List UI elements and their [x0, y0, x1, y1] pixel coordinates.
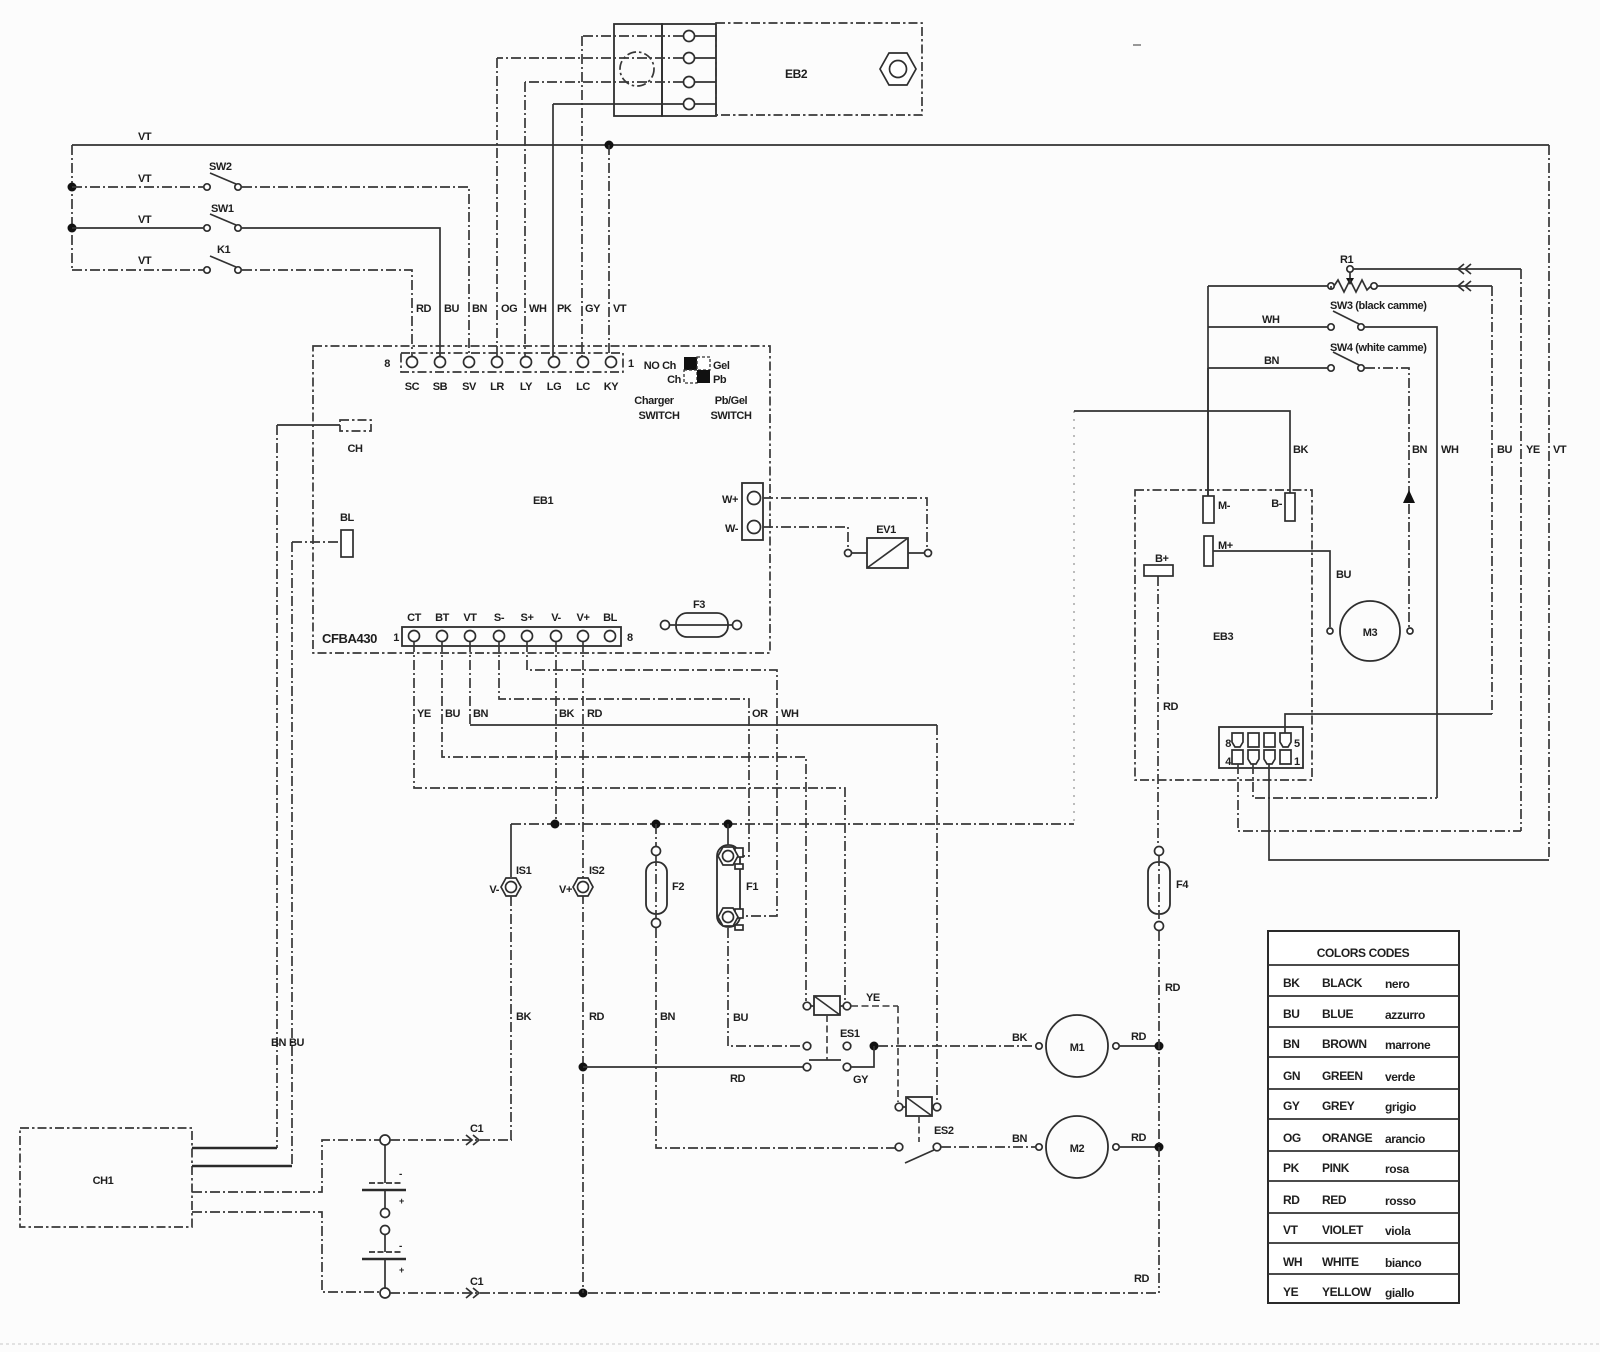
node junction left rail SW1 [68, 224, 77, 233]
svg-text:R1: R1 [1340, 254, 1354, 266]
svg-text:CFBA430: CFBA430 [322, 631, 377, 646]
svg-text:YELLOW: YELLOW [1322, 1285, 1372, 1299]
svg-text:GY: GY [585, 303, 601, 315]
wire C1 top to IS1 leg [390, 1123, 512, 1145]
wire BU F1 bottom to ES1 contact [728, 928, 803, 1046]
svg-text:BK: BK [1293, 444, 1309, 456]
wire SW2 to SV pin BN [242, 187, 469, 356]
wire BN left rail CH to CH1 [271, 425, 287, 1148]
wire battery mid link2 [384, 1234, 386, 1252]
wire battery mid link [384, 1190, 386, 1209]
pin LC [576, 357, 590, 394]
svg-text:F1: F1 [746, 881, 758, 893]
battery mid circle B [381, 1226, 390, 1235]
svg-text:LR: LR [490, 381, 504, 393]
wire EB2 pin4 to LG pin PK [553, 104, 683, 356]
wire RD M1 to RD rail [1120, 1031, 1155, 1046]
svg-text:VT: VT [1283, 1223, 1299, 1237]
connector EB2 keying circle [620, 52, 654, 86]
svg-text:marrone: marrone [1385, 1038, 1431, 1052]
svg-text:+: + [399, 1265, 404, 1275]
svg-text:VT: VT [613, 303, 627, 315]
svg-text:BN: BN [473, 708, 489, 720]
svg-text:GY: GY [853, 1074, 869, 1086]
svg-text:OG: OG [1283, 1131, 1301, 1145]
wire RD V+ long vertical [583, 642, 603, 1293]
svg-text:M2: M2 [1070, 1143, 1085, 1155]
svg-text:VT: VT [463, 612, 477, 624]
wire pin4 to YE rail [1238, 764, 1521, 831]
relay ES2 link [918, 1116, 920, 1142]
svg-text:8: 8 [1225, 738, 1231, 750]
svg-text:RD: RD [1165, 982, 1181, 994]
pin V+ [577, 612, 590, 642]
svg-text:RD: RD [587, 708, 603, 720]
svg-text:BROWN: BROWN [1322, 1037, 1367, 1051]
svg-text:F2: F2 [672, 881, 684, 893]
svg-text:BN: BN [1412, 444, 1428, 456]
pin LR [490, 357, 504, 394]
svg-text:S-: S- [494, 612, 505, 624]
svg-text:ORANGE: ORANGE [1322, 1131, 1373, 1145]
svg-text:SW3 (black camme): SW3 (black camme) [1330, 300, 1427, 312]
svg-text:BN: BN [1283, 1037, 1300, 1051]
svg-text:WHITE: WHITE [1322, 1255, 1359, 1269]
fuse F2 [646, 824, 684, 928]
svg-text:VT: VT [138, 255, 152, 267]
svg-text:V+: V+ [577, 612, 590, 624]
wire BK junction to M1 [878, 1032, 1035, 1046]
svg-text:VT: VT [1553, 444, 1567, 456]
svg-text:WH: WH [1283, 1255, 1302, 1269]
svg-text:C1: C1 [470, 1276, 484, 1288]
terminal M+ [1204, 536, 1233, 566]
wire pin5 to BU rail [1285, 714, 1492, 733]
node junction bus F1 [724, 820, 733, 829]
svg-text:EB3: EB3 [1213, 631, 1233, 643]
svg-text:BK: BK [559, 708, 575, 720]
connector EB1 bottom pin strip [393, 627, 633, 646]
wire K1 to SC pin RD [242, 270, 412, 356]
wire EB2 pin2 to LR pin OG [497, 58, 683, 356]
svg-text:RD: RD [1283, 1193, 1300, 1207]
wire pin2 to VT rail [1269, 764, 1549, 860]
node junction bus BK [551, 820, 560, 829]
relay ES2 contacts [895, 1143, 941, 1163]
wire CH1 out1 [192, 1147, 277, 1150]
block EB1 [313, 346, 770, 653]
node junction left rail SW2 [68, 183, 77, 192]
node junction ES1 out [870, 1042, 879, 1051]
node junction RD ES1 [579, 1063, 588, 1072]
connector EB3 8pin [1219, 727, 1303, 768]
wire EB2 pin3 to LY pin WH [525, 82, 683, 356]
wire WH SW3 to pin3 [1365, 327, 1459, 798]
node junction VT KY [605, 141, 614, 150]
node junction bus F2 [652, 820, 661, 829]
svg-text:Gel: Gel [713, 360, 730, 372]
wire rail M- SW switches [1207, 286, 1209, 496]
svg-text:BU: BU [445, 708, 461, 720]
svg-text:IS1: IS1 [516, 865, 532, 877]
battery terminal top circle [380, 1135, 390, 1145]
pin SC [405, 357, 420, 394]
label Pb/Gel SWITCH [711, 395, 752, 422]
svg-text:nero: nero [1385, 977, 1409, 991]
svg-text:Charger: Charger [634, 395, 674, 407]
wire CH1 out3 to battery plus [192, 1140, 380, 1192]
pin VT [463, 612, 477, 642]
motor M1 [1036, 1015, 1119, 1077]
relay contact K1 [204, 244, 241, 273]
wire R1 left to SW3 [1208, 286, 1331, 289]
svg-text:K1: K1 [217, 244, 231, 256]
wire BU rail vertical [1492, 286, 1513, 714]
svg-text:PINK: PINK [1322, 1161, 1350, 1175]
svg-text:S+: S+ [521, 612, 534, 624]
bolt on EB2 [880, 53, 916, 85]
battery mid circle A [381, 1209, 390, 1218]
svg-text:BU: BU [733, 1012, 749, 1024]
terminal B+ [1144, 553, 1173, 576]
svg-text:GY: GY [1283, 1099, 1300, 1113]
connector W+ W- [722, 483, 763, 540]
svg-text:CH: CH [347, 443, 363, 455]
svg-text:C1: C1 [470, 1123, 484, 1135]
wire OR S- to F1 top [499, 642, 768, 856]
switch SW4 white camme [1328, 342, 1427, 371]
svg-text:SW2: SW2 [209, 161, 232, 173]
node junction RD M2 [1155, 1143, 1164, 1152]
pin BL8 [603, 612, 618, 642]
svg-text:+: + [399, 1196, 404, 1206]
svg-text:VT: VT [138, 173, 152, 185]
svg-text:EV1: EV1 [876, 524, 896, 536]
svg-text:ES1: ES1 [840, 1028, 860, 1040]
switch charger Ch Pb [667, 370, 727, 386]
pin LG [547, 357, 561, 394]
svg-text:B-: B- [1271, 498, 1283, 510]
wire WH S+ to F1 bottom [527, 642, 799, 916]
svg-text:YE: YE [1526, 444, 1540, 456]
motor M3 [1327, 601, 1413, 661]
bolt IS1 [489, 865, 531, 896]
svg-text:SWITCH: SWITCH [711, 410, 752, 422]
svg-text:NO Ch: NO Ch [644, 360, 677, 372]
svg-text:M1: M1 [1070, 1042, 1085, 1054]
svg-text:ES2: ES2 [934, 1125, 954, 1137]
svg-text:B+: B+ [1155, 553, 1169, 565]
fuse F1 [717, 845, 758, 930]
svg-text:8: 8 [384, 358, 390, 370]
pin EB2-2 [684, 53, 695, 64]
svg-text:rosso: rosso [1385, 1194, 1416, 1208]
wire C1 bottom line [390, 1273, 1159, 1298]
wire SW1 to SB pin BU [242, 228, 440, 356]
battery cell 1 [362, 1169, 406, 1206]
svg-text:YE: YE [866, 992, 880, 1004]
switch SW3 black camme [1328, 300, 1427, 330]
svg-text:verde: verde [1385, 1070, 1416, 1084]
wire IS1 to C1 top BK [511, 896, 532, 1140]
wire pin3 to WH rail [1253, 764, 1437, 798]
battery cell 2 [362, 1241, 406, 1275]
motor M2 [1036, 1116, 1119, 1178]
block EB3 [1135, 490, 1312, 780]
node junction V+ bottom [579, 1289, 588, 1298]
svg-text:BK: BK [1012, 1032, 1028, 1044]
label Charger SWITCH [634, 395, 680, 422]
svg-text:BL: BL [340, 512, 355, 524]
svg-text:grigio: grigio [1385, 1100, 1416, 1114]
svg-text:BLACK: BLACK [1322, 976, 1363, 990]
svg-text:BN: BN [271, 1037, 287, 1049]
wire W+ to EV1 [763, 498, 927, 549]
svg-text:BU: BU [444, 303, 460, 315]
svg-text:BT: BT [435, 612, 450, 624]
svg-text:rosa: rosa [1385, 1162, 1409, 1176]
svg-text:RD: RD [1134, 1273, 1150, 1285]
connector EB2 plug body [614, 24, 716, 116]
svg-text:LC: LC [576, 381, 590, 393]
svg-text:VT: VT [138, 131, 152, 143]
block EB2 [716, 23, 922, 115]
svg-text:BL: BL [603, 612, 618, 624]
wire VT to SW1 [72, 214, 203, 228]
svg-text:BK: BK [516, 1011, 532, 1023]
terminal B- [1271, 493, 1295, 521]
svg-text:BU: BU [289, 1037, 305, 1049]
svg-text:IS2: IS2 [589, 865, 605, 877]
svg-text:LG: LG [547, 381, 561, 393]
svg-text:BK: BK [1283, 976, 1300, 990]
switch SW1 [204, 203, 241, 231]
scan artifact bottom line [0, 1343, 1600, 1345]
svg-text:BU: BU [1283, 1007, 1300, 1021]
svg-text:SW1: SW1 [211, 203, 234, 215]
wire W- to EV1 [763, 527, 848, 549]
pin CT [407, 612, 422, 642]
svg-text:SW4 (white camme): SW4 (white camme) [1330, 342, 1427, 354]
pin EB2-4 [684, 99, 695, 110]
svg-text:WH: WH [1262, 314, 1280, 326]
wire GY ES1 lower to junction [851, 1046, 874, 1067]
svg-text:arancio: arancio [1385, 1132, 1425, 1146]
svg-text:RED: RED [1322, 1193, 1347, 1207]
svg-text:viola: viola [1385, 1224, 1411, 1238]
svg-text:-: - [399, 1241, 402, 1252]
wire CH1 out2 [192, 1165, 292, 1168]
switch charger NO Ch Gel [644, 357, 730, 372]
wire EB2 pin stubs right [695, 36, 716, 104]
wire YE CT to ES1 coil right [414, 642, 845, 1001]
pin SB [433, 357, 448, 394]
wire RD B+ to F4 [1158, 576, 1179, 846]
svg-text:RD: RD [1163, 701, 1179, 713]
wire BU M+ to M3 [1213, 551, 1352, 627]
svg-text:KY: KY [604, 381, 620, 393]
svg-text:RD: RD [589, 1011, 605, 1023]
svg-text:azzurro: azzurro [1385, 1008, 1425, 1022]
svg-text:SV: SV [462, 381, 477, 393]
svg-text:OR: OR [752, 708, 768, 720]
wire CH lead [277, 424, 340, 426]
pin LY [520, 357, 533, 394]
relay ES1 contacts [803, 1042, 869, 1086]
svg-text:V-: V- [551, 612, 561, 624]
wire RD M2 to RD rail [1120, 1132, 1155, 1147]
svg-text:5: 5 [1294, 738, 1300, 750]
wire left rail [71, 145, 73, 270]
wire BN VT to ES2 coil right [470, 642, 937, 1102]
svg-text:F4: F4 [1176, 879, 1189, 891]
terminal M- [1203, 496, 1231, 523]
wire CH1 out4 to battery minus [192, 1212, 381, 1292]
svg-text:BN: BN [1012, 1133, 1028, 1145]
svg-text:1: 1 [393, 632, 399, 644]
svg-text:F3: F3 [693, 599, 705, 611]
svg-text:LY: LY [520, 381, 533, 393]
svg-text:-: - [399, 1169, 402, 1180]
svg-text:Pb: Pb [713, 374, 727, 386]
svg-text:GREEN: GREEN [1322, 1069, 1363, 1083]
table colors codes [1268, 931, 1459, 1303]
svg-text:WH: WH [781, 708, 799, 720]
wire R1 top to YE rail [1353, 264, 1521, 274]
wire bus horizontal [511, 823, 1074, 825]
pin BT [435, 612, 450, 642]
fuse F3 [661, 599, 742, 637]
wire BK V- to bus [556, 642, 575, 824]
valve EV1 [845, 524, 932, 568]
wire BN ES2 to M2 [941, 1133, 1035, 1147]
svg-text:OG: OG [501, 303, 517, 315]
svg-text:EB1: EB1 [533, 495, 553, 507]
wire WH to SW3 [1208, 314, 1328, 327]
relay ES2 coil [895, 1097, 954, 1137]
svg-text:V-: V- [489, 884, 499, 896]
svg-text:W-: W- [725, 523, 739, 535]
wire VT to K1 [72, 255, 203, 270]
node junction RD M1 [1155, 1042, 1164, 1051]
svg-text:WH: WH [1441, 444, 1459, 456]
wire bus left leg to IS1 [510, 824, 512, 877]
pin S+ [521, 612, 534, 642]
potentiometer R1 [1328, 254, 1377, 292]
svg-text:BN: BN [660, 1011, 676, 1023]
svg-text:1: 1 [628, 358, 634, 370]
svg-text:CH1: CH1 [93, 1175, 114, 1187]
svg-text:GREY: GREY [1322, 1099, 1355, 1113]
svg-text:RD: RD [730, 1073, 746, 1085]
wire battery top link [384, 1145, 386, 1183]
svg-text:BLUE: BLUE [1322, 1007, 1353, 1021]
svg-text:giallo: giallo [1385, 1286, 1414, 1300]
wire faint bus to BK corner [1073, 411, 1075, 824]
svg-text:PK: PK [557, 303, 572, 315]
svg-text:BU: BU [1336, 569, 1352, 581]
wire BK to B- [1074, 411, 1290, 493]
svg-text:M-: M- [1218, 500, 1231, 512]
connector EB1 top pin strip [384, 353, 634, 372]
pin EB2-3 [684, 77, 695, 88]
svg-text:VT: VT [138, 214, 152, 226]
wire M- from SW4 rail [1207, 368, 1209, 496]
pin S- [494, 612, 505, 642]
svg-text:BN: BN [472, 303, 488, 315]
switch SW2 [204, 161, 241, 190]
connector CH [340, 420, 371, 455]
svg-text:YE: YE [417, 708, 431, 720]
svg-text:M3: M3 [1363, 627, 1378, 639]
svg-text:SWITCH: SWITCH [639, 410, 680, 422]
wire F1 top to bus [727, 824, 729, 845]
svg-text:V+: V+ [559, 884, 572, 896]
scan artifact top dash [1133, 44, 1141, 46]
wire BN F2 to ES2 contact [656, 928, 895, 1148]
svg-text:SB: SB [433, 381, 448, 393]
wire BN to SW4 [1208, 355, 1328, 368]
svg-text:BU: BU [1497, 444, 1513, 456]
wire VT rail vertical [1549, 145, 1567, 860]
wire YE rail vertical [1521, 269, 1540, 831]
svg-text:Pb/Gel: Pb/Gel [715, 395, 748, 407]
svg-text:CT: CT [407, 612, 422, 624]
svg-text:SC: SC [405, 381, 420, 393]
pin SV [462, 357, 477, 394]
relay ES1 link [826, 1015, 828, 1060]
wire BN SW4 to M3 [1365, 368, 1428, 627]
svg-text:GN: GN [1283, 1069, 1300, 1083]
svg-text:bianco: bianco [1385, 1256, 1421, 1270]
svg-text:8: 8 [627, 632, 633, 644]
bolt IS2 [559, 865, 605, 1023]
svg-text:VIOLET: VIOLET [1322, 1223, 1364, 1237]
wire BU BT to ES1 coil left [442, 642, 806, 1001]
pin V- [551, 612, 562, 642]
wire RD F4 to bottom [1159, 931, 1181, 1293]
wire VT main top [72, 131, 1549, 145]
wire R1 right to BU rail [1377, 281, 1492, 291]
battery terminal bottom circle [380, 1288, 390, 1298]
wire BL lead [292, 541, 341, 543]
svg-text:COLORS CODES: COLORS CODES [1317, 946, 1410, 960]
svg-text:WH: WH [529, 303, 547, 315]
svg-text:RD: RD [1131, 1031, 1147, 1043]
wire VT to SW2 [72, 173, 203, 187]
connector BL [340, 512, 355, 557]
svg-text:RD: RD [416, 303, 432, 315]
wire battery bottom link [384, 1259, 386, 1288]
svg-text:1: 1 [1294, 756, 1300, 768]
wire EB2 pin1 to LC pin [582, 36, 683, 356]
svg-text:Ch: Ch [667, 374, 682, 386]
wire RD to ES1 lower contact [583, 1067, 803, 1085]
relay ES1 coil [803, 996, 860, 1040]
pin KY [604, 357, 620, 394]
wire YE ES1 coil to ES2 coil [851, 992, 898, 1102]
svg-text:PK: PK [1283, 1161, 1300, 1175]
wire KY pin to VT line [608, 145, 610, 356]
svg-text:EB2: EB2 [785, 67, 808, 81]
svg-text:RD: RD [1131, 1132, 1147, 1144]
pin EB2-1 [684, 31, 695, 42]
svg-text:BN: BN [1264, 355, 1280, 367]
block CH1 [20, 1128, 192, 1227]
svg-text:W+: W+ [722, 494, 738, 506]
fuse F4 [1148, 847, 1189, 931]
svg-text:YE: YE [1283, 1285, 1299, 1299]
